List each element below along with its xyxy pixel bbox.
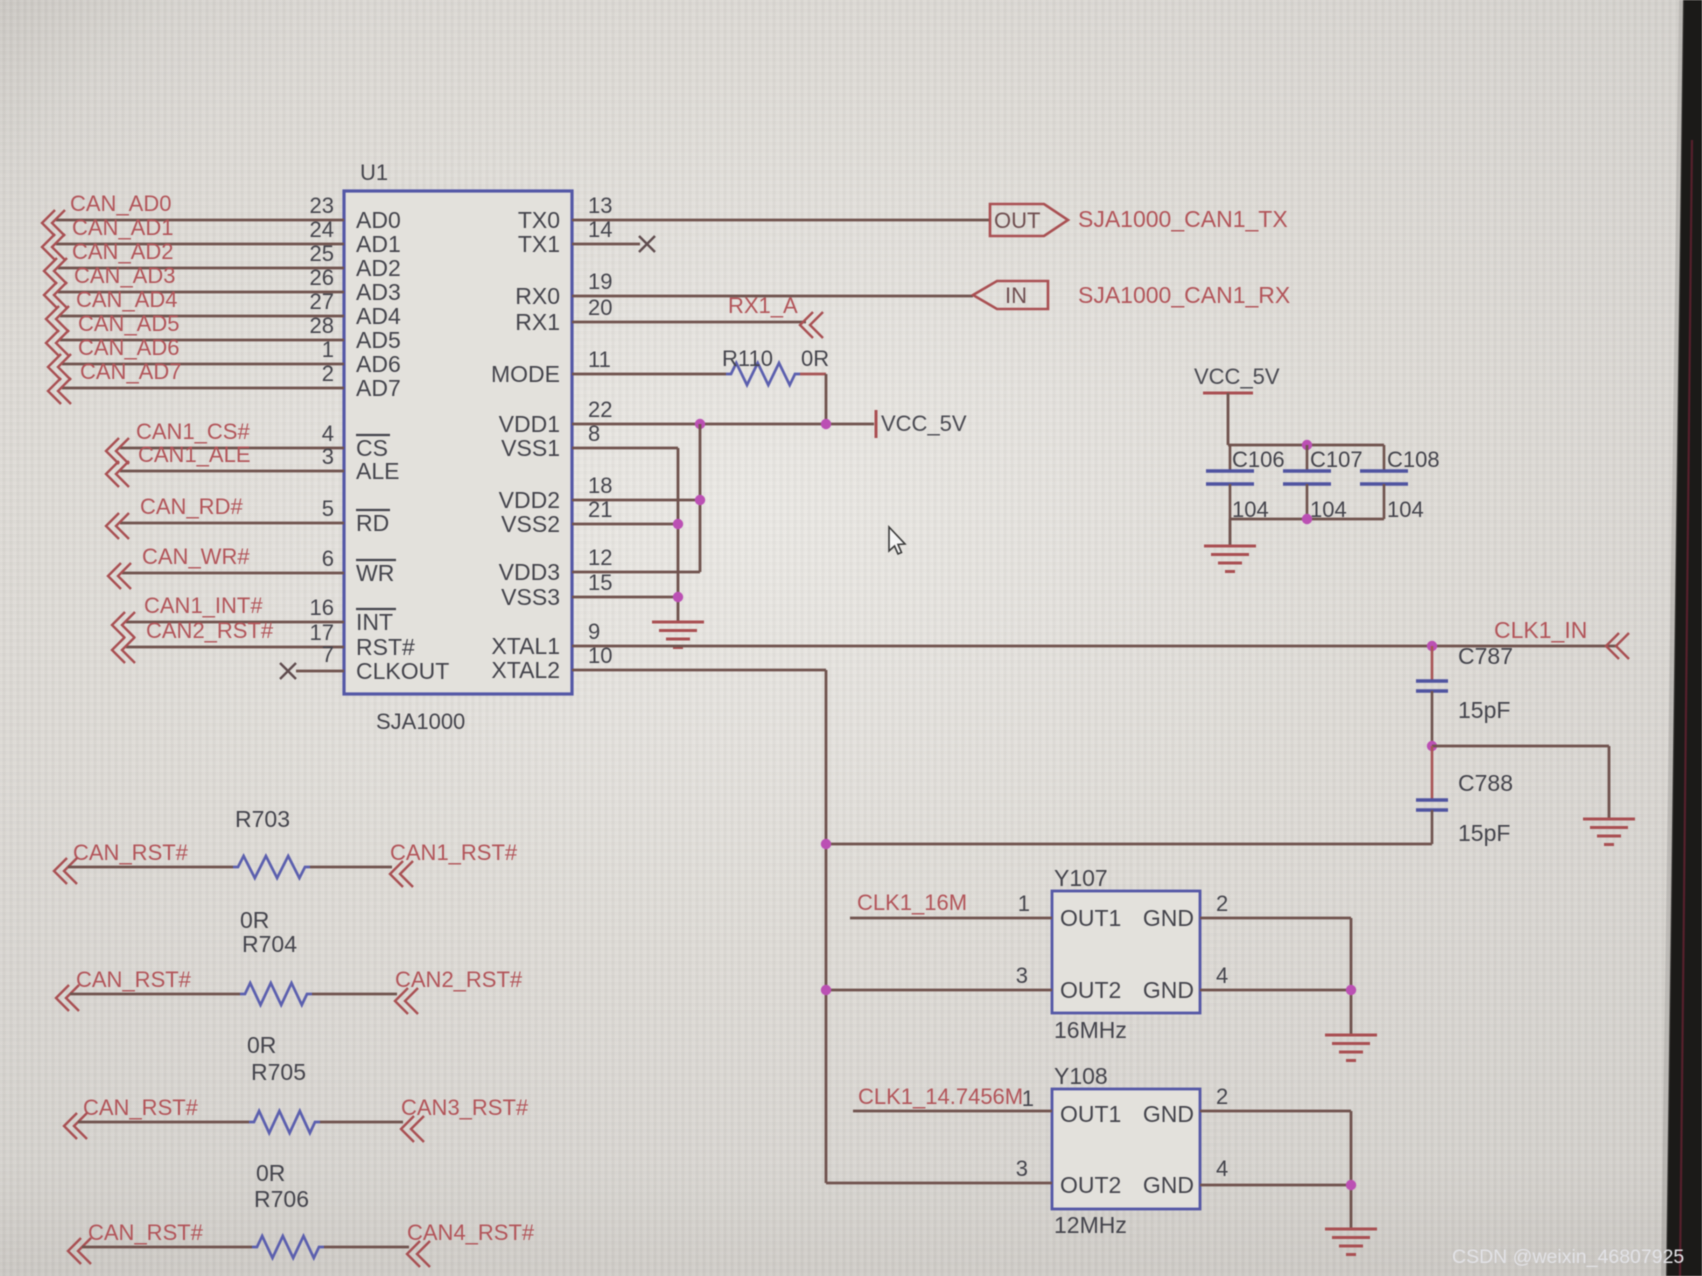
- svg-text:VDD2: VDD2: [499, 487, 560, 513]
- capacitor C107: [1283, 445, 1331, 519]
- Y107 pin names: [1060, 905, 1194, 1003]
- svg-text:AD5: AD5: [356, 327, 401, 353]
- svg-text:R706: R706: [254, 1186, 309, 1212]
- svg-text:OUT1: OUT1: [1060, 905, 1121, 931]
- svg-text:RST#: RST#: [356, 634, 415, 660]
- label C787: [1458, 643, 1513, 669]
- junction VDD2: [695, 495, 705, 505]
- svg-text:9: 9: [588, 619, 600, 644]
- wire RX0 to IN port: [572, 295, 973, 298]
- svg-text:CAN_RST#: CAN_RST#: [76, 967, 192, 992]
- wire bottom rail C106-C108: [1230, 518, 1384, 521]
- net label CLK1_IN: [1494, 617, 1629, 659]
- power port VCC_5V right of chip: [876, 410, 967, 438]
- ground below C106: [1204, 546, 1256, 572]
- svg-text:AD7: AD7: [356, 375, 401, 401]
- net label RX1_A: [728, 293, 823, 338]
- svg-text:GND: GND: [1143, 1172, 1194, 1198]
- svg-text:CAN_AD3: CAN_AD3: [74, 263, 175, 288]
- svg-text:VDD3: VDD3: [499, 559, 560, 585]
- wire Y108 pin3: [826, 1182, 1052, 1185]
- wire right of R704: [312, 993, 397, 996]
- svg-text:CAN_AD7: CAN_AD7: [80, 359, 181, 384]
- svg-text:3: 3: [1016, 1156, 1028, 1181]
- svg-text:SJA1000: SJA1000: [376, 709, 465, 734]
- label 0R of R110: [801, 346, 829, 371]
- wire MODE to R110: [572, 373, 726, 376]
- svg-text:16MHz: 16MHz: [1054, 1017, 1127, 1043]
- svg-text:CAN1_CS#: CAN1_CS#: [136, 419, 250, 444]
- svg-text:3: 3: [1016, 963, 1028, 988]
- net label CAN2_RST#: [395, 967, 523, 1014]
- svg-text:2: 2: [1216, 1084, 1228, 1109]
- svg-text:C107: C107: [1310, 447, 1363, 472]
- resistor R703: [233, 856, 310, 878]
- net label CAN4_RST#: [407, 1220, 535, 1267]
- label C788: [1458, 770, 1513, 796]
- wire CLK1_16M to Y107 pin1: [850, 917, 1052, 920]
- left pin 2 net CAN_AD7 wire: [48, 359, 344, 404]
- junction at VDD rail x700: [695, 419, 705, 429]
- label 16MHz: [1054, 1017, 1127, 1043]
- svg-text:SJA1000_CAN1_RX: SJA1000_CAN1_RX: [1078, 282, 1290, 308]
- svg-text:TX1: TX1: [518, 231, 560, 257]
- svg-text:2: 2: [1216, 891, 1228, 916]
- svg-text:SJA1000_CAN1_TX: SJA1000_CAN1_TX: [1078, 206, 1288, 232]
- svg-text:CAN_RST#: CAN_RST#: [88, 1220, 204, 1245]
- Y108 pin 2 number: [1216, 1084, 1228, 1109]
- svg-text:0R: 0R: [247, 1032, 276, 1058]
- svg-text:CLK1_IN: CLK1_IN: [1494, 617, 1587, 643]
- Y107 pin 1 number: [1018, 891, 1030, 916]
- svg-text:4: 4: [322, 421, 334, 446]
- net label SJA1000_CAN1_RX: [1078, 282, 1290, 308]
- wire VDD2 pin18: [572, 499, 700, 502]
- Y108 pin 3 number: [1016, 1156, 1028, 1181]
- svg-text:C106: C106: [1232, 447, 1285, 472]
- watermark CSDN: [1452, 1246, 1684, 1268]
- designator Y107: [1054, 865, 1108, 891]
- part name SJA1000: [376, 709, 465, 734]
- svg-text:VSS3: VSS3: [501, 584, 560, 610]
- svg-text:0R: 0R: [240, 907, 269, 933]
- wire Y107 pin3: [826, 989, 1052, 992]
- Y107 pin 4 number: [1216, 963, 1228, 988]
- U1 left pin names: [356, 207, 449, 684]
- left pin 1 net CAN_AD6 wire: [48, 335, 344, 380]
- net label SJA1000_CAN1_TX: [1078, 206, 1288, 232]
- label 15pF of C787: [1458, 697, 1510, 723]
- left pin 23 net CAN_AD0 wire: [42, 191, 344, 236]
- svg-text:0R: 0R: [801, 346, 829, 371]
- wire TX1 stub no-connect: [572, 236, 655, 252]
- label 12MHz: [1054, 1212, 1127, 1238]
- U1 right pin numbers: [588, 193, 612, 668]
- net label CAN_RST# of R706: [68, 1220, 204, 1264]
- label 104 of C107: [1310, 497, 1347, 522]
- svg-text:CAN1_ALE: CAN1_ALE: [138, 442, 251, 467]
- wire C788 bottom rail: [826, 843, 1432, 846]
- wire VDD3 pin12: [572, 571, 700, 574]
- wire VSS2 pin21: [572, 523, 678, 526]
- svg-text:25: 25: [310, 241, 334, 266]
- svg-text:TX0: TX0: [518, 207, 560, 233]
- svg-text:CAN_AD1: CAN_AD1: [72, 215, 173, 240]
- svg-text:5: 5: [322, 496, 334, 521]
- svg-text:VSS1: VSS1: [501, 435, 560, 461]
- svg-text:AD3: AD3: [356, 279, 401, 305]
- wire left of R706: [82, 1246, 252, 1249]
- svg-text:CLKOUT: CLKOUT: [356, 658, 449, 684]
- wire top rail C106-C108: [1228, 444, 1384, 447]
- pin 7 CLKOUT no-connect: [280, 642, 344, 679]
- svg-text:27: 27: [310, 289, 334, 314]
- capacitor C108: [1360, 445, 1408, 519]
- Y107 pin 3 number: [1016, 963, 1028, 988]
- designator R706: [254, 1186, 309, 1212]
- ground below Y108: [1325, 1229, 1377, 1255]
- label 0R of R704: [247, 1032, 276, 1058]
- ground below Y107: [1325, 1035, 1377, 1061]
- svg-text:15pF: 15pF: [1458, 820, 1510, 846]
- svg-text:CSDN @weixin_46807925: CSDN @weixin_46807925: [1452, 1246, 1684, 1268]
- capacitor C787: [1416, 646, 1448, 746]
- junction below C787: [1427, 741, 1437, 751]
- left pin 26 net CAN_AD3 wire: [44, 263, 344, 308]
- wire VSS3 pin15: [572, 596, 678, 599]
- svg-text:OUT2: OUT2: [1060, 1172, 1121, 1198]
- svg-text:3: 3: [322, 444, 334, 469]
- designator R704: [242, 931, 297, 957]
- junction at VDD rail x826: [821, 419, 831, 429]
- svg-text:AD1: AD1: [356, 231, 401, 257]
- svg-text:28: 28: [310, 313, 334, 338]
- svg-text:16: 16: [310, 595, 334, 620]
- resistor R706: [252, 1236, 324, 1258]
- left pin 16 net CAN1_INT# wire: [112, 593, 344, 638]
- wire C787 to ground: [1432, 746, 1609, 818]
- svg-text:0R: 0R: [256, 1160, 285, 1186]
- oscillator Y108 body: [1052, 1089, 1200, 1209]
- wire Y108 pin4 GND: [1200, 1185, 1351, 1228]
- svg-text:22: 22: [588, 397, 612, 422]
- svg-text:R704: R704: [242, 931, 297, 957]
- label 0R of R705: [256, 1160, 285, 1186]
- Y108 pin 4 number: [1216, 1156, 1228, 1181]
- resistor R110: [726, 363, 800, 385]
- left pin 6 net CAN_WR# wire: [108, 544, 344, 589]
- wire Y108 pin2 GND: [1200, 1111, 1351, 1185]
- svg-text:VCC_5V: VCC_5V: [1194, 364, 1280, 389]
- svg-text:23: 23: [310, 193, 334, 218]
- svg-text:R110: R110: [722, 346, 773, 371]
- left pin 24 net CAN_AD1 wire: [42, 215, 344, 260]
- junction VSS3: [673, 592, 683, 602]
- svg-text:VDD1: VDD1: [499, 411, 560, 437]
- label R110: [722, 346, 773, 371]
- designator Y108: [1054, 1063, 1108, 1089]
- left pin 25 net CAN_AD2 wire: [44, 239, 344, 284]
- wire Y107 pin4 GND: [1200, 990, 1351, 1034]
- svg-text:CAN4_RST#: CAN4_RST#: [407, 1220, 535, 1245]
- label 104 of C108: [1387, 497, 1424, 522]
- wire TX0 to OUT port: [572, 219, 990, 222]
- svg-text:CAN_RD#: CAN_RD#: [140, 494, 243, 519]
- label 104 of C106: [1232, 497, 1269, 522]
- svg-text:AD2: AD2: [356, 255, 401, 281]
- left pin 28 net CAN_AD5 wire: [46, 311, 344, 356]
- svg-text:GND: GND: [1143, 1101, 1194, 1127]
- svg-text:AD6: AD6: [356, 351, 401, 377]
- wire VDD1 to VCC_5V: [572, 423, 874, 426]
- svg-text:VCC_5V: VCC_5V: [881, 411, 967, 436]
- svg-text:CAN1_RST#: CAN1_RST#: [390, 840, 518, 865]
- resistor R704: [240, 983, 312, 1005]
- designator R703: [235, 806, 290, 832]
- svg-text:4: 4: [1216, 963, 1228, 988]
- svg-text:15: 15: [588, 570, 612, 595]
- wire C106 to ground: [1229, 519, 1232, 545]
- svg-text:C788: C788: [1458, 770, 1513, 796]
- left pin 4 net CAN1_CS# wire: [106, 419, 344, 464]
- svg-text:Y107: Y107: [1054, 865, 1108, 891]
- capacitor C106: [1206, 445, 1254, 519]
- label C108: [1387, 447, 1440, 472]
- wire XTAL2 vertical rail: [572, 670, 826, 1183]
- junction Y108 GND: [1346, 1180, 1356, 1190]
- left pin 5 net CAN_RD# wire: [106, 494, 344, 539]
- svg-text:AD4: AD4: [356, 303, 401, 329]
- svg-text:RX1_A: RX1_A: [728, 293, 798, 318]
- wire CLK1_14.7456M to Y108 pin1: [853, 1110, 1052, 1113]
- svg-text:XTAL2: XTAL2: [491, 657, 560, 683]
- wire left of R703: [68, 866, 233, 869]
- svg-text:IN: IN: [1005, 283, 1027, 308]
- svg-text:CAN2_RST#: CAN2_RST#: [395, 967, 523, 992]
- svg-text:15pF: 15pF: [1458, 697, 1510, 723]
- svg-text:GND: GND: [1143, 977, 1194, 1003]
- svg-text:7: 7: [322, 642, 334, 667]
- Y107 pin 2 number: [1216, 891, 1228, 916]
- U1 right pin names: [491, 207, 560, 683]
- svg-text:CAN_WR#: CAN_WR#: [142, 544, 250, 569]
- svg-text:104: 104: [1387, 497, 1424, 522]
- junction bottom rail C107: [1302, 514, 1312, 524]
- ground below VSS rail: [652, 622, 704, 648]
- svg-text:AD0: AD0: [356, 207, 401, 233]
- wire VSS1 pin8: [572, 448, 678, 621]
- net label CAN3_RST#: [401, 1095, 529, 1142]
- svg-text:11: 11: [588, 347, 611, 372]
- designator U1: [360, 160, 388, 185]
- svg-text:24: 24: [310, 217, 334, 242]
- net label CLK1_16M: [857, 890, 967, 915]
- wire right of R703: [310, 866, 392, 869]
- wire left of R704: [70, 993, 240, 996]
- wire Y107 pin2 GND: [1200, 918, 1351, 990]
- wire RX1 to RX1_A: [572, 321, 806, 324]
- svg-text:XTAL1: XTAL1: [491, 633, 560, 659]
- svg-text:RX0: RX0: [515, 283, 560, 309]
- svg-text:ALE: ALE: [356, 458, 399, 484]
- net label CAN_RST# of R705: [64, 1095, 199, 1139]
- svg-text:2: 2: [322, 361, 334, 386]
- IC U1 SJA1000 body: [344, 191, 572, 694]
- svg-text:CAN2_RST#: CAN2_RST#: [146, 618, 274, 643]
- resistor R705: [249, 1111, 320, 1133]
- net label CAN1_RST#: [390, 840, 518, 887]
- svg-text:CAN_AD4: CAN_AD4: [76, 287, 177, 312]
- label C107: [1310, 447, 1363, 472]
- label 0R of R703: [240, 907, 269, 933]
- junction C788 rail at x826: [821, 839, 831, 849]
- monitor bezel right edge: [1661, 0, 1702, 1276]
- net label CLK1_14.7456M: [858, 1084, 1023, 1109]
- svg-text:C108: C108: [1387, 447, 1440, 472]
- svg-text:1: 1: [1018, 891, 1030, 916]
- svg-text:12MHz: 12MHz: [1054, 1212, 1127, 1238]
- left pin 27 net CAN_AD4 wire: [46, 287, 344, 332]
- mouse cursor: [889, 527, 905, 554]
- label 15pF of C788: [1458, 820, 1510, 846]
- junction Y107 pin3 rail: [821, 985, 831, 995]
- svg-text:OUT1: OUT1: [1060, 1101, 1121, 1127]
- svg-text:19: 19: [588, 269, 612, 294]
- svg-text:INT: INT: [356, 609, 393, 635]
- svg-text:CAN3_RST#: CAN3_RST#: [401, 1095, 529, 1120]
- wire left of R705: [78, 1121, 249, 1124]
- wire XTAL1 CLK1_IN: [572, 645, 1618, 648]
- svg-text:18: 18: [588, 473, 612, 498]
- svg-text:CAN1_INT#: CAN1_INT#: [144, 593, 263, 618]
- svg-text:CAN_AD6: CAN_AD6: [78, 335, 179, 360]
- capacitor C788: [1416, 746, 1448, 844]
- svg-text:CLK1_16M: CLK1_16M: [857, 890, 967, 915]
- junction VSS2: [673, 519, 683, 529]
- svg-text:MODE: MODE: [491, 361, 560, 387]
- port OUT SJA1000_CAN1_TX: [990, 204, 1068, 236]
- net label CAN_RST# of R704: [56, 967, 192, 1011]
- svg-text:CAN_AD5: CAN_AD5: [78, 311, 179, 336]
- svg-text:OUT2: OUT2: [1060, 977, 1121, 1003]
- power port VCC_5V above C106: [1194, 364, 1280, 445]
- designator R705: [251, 1059, 306, 1085]
- svg-text:CLK1_14.7456M: CLK1_14.7456M: [858, 1084, 1023, 1109]
- net label CAN_RST# of R703: [54, 840, 189, 884]
- wire R110 to corner: [800, 374, 826, 424]
- svg-text:R705: R705: [251, 1059, 306, 1085]
- Y108 pin names: [1060, 1101, 1194, 1198]
- label C106: [1232, 447, 1285, 472]
- svg-text:WR: WR: [356, 560, 394, 586]
- svg-text:RX1: RX1: [515, 309, 560, 335]
- left pin 17 net CAN2_RST# wire: [112, 618, 344, 663]
- svg-text:1: 1: [322, 337, 334, 362]
- svg-text:CAN_RST#: CAN_RST#: [73, 840, 189, 865]
- ground right of C788: [1583, 819, 1635, 845]
- left pin 3 net CAN1_ALE wire: [106, 442, 344, 487]
- svg-text:20: 20: [588, 295, 612, 320]
- svg-text:RD: RD: [356, 510, 389, 536]
- svg-text:26: 26: [310, 265, 334, 290]
- wire right of R705: [320, 1121, 403, 1124]
- wire VDD rail vertical: [699, 424, 702, 572]
- svg-text:CAN_RST#: CAN_RST#: [83, 1095, 199, 1120]
- svg-text:VSS2: VSS2: [501, 511, 560, 537]
- svg-text:6: 6: [322, 546, 334, 571]
- svg-text:OUT: OUT: [994, 208, 1040, 233]
- svg-text:C787: C787: [1458, 643, 1513, 669]
- svg-text:R703: R703: [235, 806, 290, 832]
- junction CLK1_IN at C787: [1427, 641, 1437, 651]
- junction Y107 GND: [1346, 985, 1356, 995]
- junction top rail C107: [1302, 440, 1312, 450]
- oscillator Y107 body: [1052, 891, 1200, 1013]
- svg-text:Y108: Y108: [1054, 1063, 1108, 1089]
- svg-text:U1: U1: [360, 160, 388, 185]
- port IN SJA1000_CAN1_RX: [973, 281, 1048, 309]
- svg-text:1: 1: [1022, 1086, 1034, 1111]
- svg-text:GND: GND: [1143, 905, 1194, 931]
- svg-text:13: 13: [588, 193, 612, 218]
- Y108 pin 1 number: [1022, 1086, 1034, 1111]
- svg-text:4: 4: [1216, 1156, 1228, 1181]
- svg-text:CAN_AD0: CAN_AD0: [70, 191, 171, 216]
- svg-text:CAN_AD2: CAN_AD2: [72, 239, 173, 264]
- svg-text:12: 12: [588, 545, 612, 570]
- wire right of R706: [324, 1246, 409, 1249]
